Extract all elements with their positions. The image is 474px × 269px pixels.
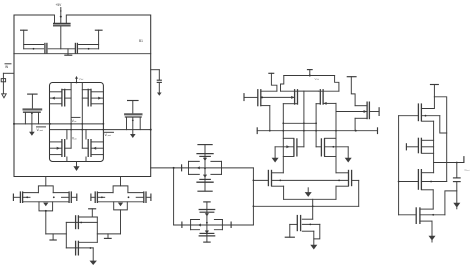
cross X1 midline xyxy=(189,167,222,169)
node dot X out tail wire xyxy=(253,205,255,207)
transistor M1 source stub xyxy=(54,15,56,23)
wire L1 drain to center xyxy=(48,48,74,50)
M5 mid lead xyxy=(302,223,320,225)
wire W1 xyxy=(283,122,316,124)
cross X1 bottom gate bar xyxy=(199,178,211,180)
stage-2 top rail right corner xyxy=(335,76,339,92)
O3 gate lead xyxy=(399,181,419,183)
ML bulk arrow head xyxy=(29,132,35,136)
svg-text:+5V: +5V xyxy=(56,3,63,7)
MB upper gate bar xyxy=(75,215,77,229)
NL inner drain stub xyxy=(66,130,68,162)
MB upper channel bar xyxy=(77,215,79,229)
M5 source vertical xyxy=(313,231,315,245)
M2R top stem xyxy=(351,77,355,106)
M3R bias arrow xyxy=(345,158,352,163)
cross X2 midline xyxy=(191,224,223,226)
cross X2 bottom stem xyxy=(206,236,208,242)
cross X2 lower arrow xyxy=(205,231,209,234)
cross X2 center vertical xyxy=(206,210,208,236)
wire bias chain right xyxy=(97,233,120,235)
stage-2 right rail xyxy=(335,103,337,172)
M3R mid lead xyxy=(325,146,349,148)
M2C gate arrow xyxy=(323,102,326,105)
node dot M3L mid xyxy=(286,145,289,148)
output drain rail xyxy=(433,121,435,173)
output cap ground arrow xyxy=(453,203,460,208)
stage-2 center vertical xyxy=(303,91,305,147)
node dot on +5V stem xyxy=(60,16,62,18)
inner gate rail left xyxy=(70,83,72,149)
cluster CR left T-bar xyxy=(90,194,92,202)
W2 right T-bar xyxy=(377,127,379,134)
transistor M2B gate bar xyxy=(294,89,296,105)
M2C bottom lead xyxy=(316,103,320,105)
input source symbol xyxy=(1,79,5,82)
cluster CR bottom stem xyxy=(120,210,122,234)
stage-2 Vdd stem xyxy=(309,70,311,76)
M2L channel bar xyxy=(260,89,262,106)
PR gate lead xyxy=(82,97,88,99)
NL drain lead xyxy=(50,141,62,143)
M2L gate bar xyxy=(257,89,259,106)
transistor ML gate stem xyxy=(31,94,33,108)
M5 gate T-ground bar xyxy=(285,236,295,238)
bias tick X2 right xyxy=(230,222,232,229)
transistor MR gate bar xyxy=(124,113,142,115)
transistor M4R channel bar xyxy=(348,170,350,186)
tail current arrow stem xyxy=(307,188,309,193)
node dot O4 mid xyxy=(432,214,434,216)
node dot W3 center xyxy=(312,205,314,207)
cluster CR left gate bar xyxy=(94,191,96,203)
transistor L1 T drop wire xyxy=(23,30,25,49)
cluster CR left mid stub xyxy=(97,196,104,198)
stage-2 center top connectors xyxy=(298,90,319,92)
cross X1 left connectors xyxy=(189,161,200,174)
M2R mid arrow xyxy=(364,110,367,113)
O4 bottom lead xyxy=(420,220,432,222)
transistor MR gate bias T-bar xyxy=(127,100,139,102)
cluster CR right gate lead xyxy=(146,196,151,198)
transistor MR source stub xyxy=(126,118,128,130)
inner PMOS PL gate bar xyxy=(64,89,66,107)
node dot feed X2 xyxy=(173,167,175,169)
M5 channel bar xyxy=(300,215,302,231)
M3L bias arrow stem xyxy=(274,147,276,158)
cluster CL bottom staple xyxy=(39,202,53,211)
wire X2 feed vertical xyxy=(173,168,175,225)
M4L source lead xyxy=(272,185,284,187)
M4L gate lead xyxy=(253,179,268,181)
inner NMOS NR channel bar xyxy=(90,139,92,157)
M2L top bias T-bar xyxy=(268,72,274,74)
node dot on L1 lower lead xyxy=(33,48,35,50)
O1 channel bar xyxy=(420,103,422,121)
cross X2 left connectors xyxy=(191,220,200,230)
transistor M1 channel bar xyxy=(53,22,71,24)
cluster CR stem from box xyxy=(120,177,122,186)
transistor M2L gate T-bar xyxy=(243,93,245,101)
inner box tail ground arrow xyxy=(73,166,79,171)
svg-text:B1: B1 xyxy=(139,39,143,43)
M5 gate vertical xyxy=(289,224,291,237)
inner NMOS NL channel bar xyxy=(61,139,63,157)
M2R top lead xyxy=(355,105,367,107)
node dot output cap xyxy=(456,162,458,164)
M3R bottom lead xyxy=(325,156,337,158)
node dots on rail y129.6 xyxy=(70,129,72,131)
right input cap bar bottom xyxy=(157,81,162,83)
M3L mid lead xyxy=(275,146,294,148)
transistor R1 channel bar xyxy=(74,43,76,54)
node dot MB upper xyxy=(80,222,82,224)
NL gate lead xyxy=(65,147,71,149)
O3 to O4 rail xyxy=(432,190,434,209)
node dot O1 mid xyxy=(425,115,427,117)
M4R gate lead xyxy=(352,179,359,181)
output cap top plate xyxy=(453,177,461,179)
cluster CR bottom staple xyxy=(114,202,128,210)
transistor ML gate bar xyxy=(23,108,43,110)
O2 bottom lead xyxy=(421,152,433,154)
inner NMOS NR gate bar xyxy=(87,139,89,157)
M5 mid wrap xyxy=(314,224,320,239)
node dot CL left xyxy=(26,196,28,198)
M2R gate T-bar xyxy=(378,107,380,116)
M3L bias arrow xyxy=(272,158,279,163)
NR bulk lead xyxy=(91,147,103,149)
transistor M1 gate bar xyxy=(53,24,71,26)
inner PMOS PR gate bar xyxy=(87,89,89,107)
NL source lead xyxy=(50,154,62,156)
M2C gate bar xyxy=(322,89,324,105)
PR inner source connector xyxy=(82,89,91,91)
transistor R1 gate bar xyxy=(76,43,78,54)
input source stem xyxy=(2,73,4,94)
cross X2 bottom channel bar xyxy=(199,235,216,237)
O4 top lead xyxy=(420,208,433,210)
output cap bottom plate xyxy=(453,181,461,183)
bias tick X1 left xyxy=(181,164,183,171)
transistor L1 gate bar xyxy=(44,43,46,54)
M4L channel bar xyxy=(271,170,273,186)
node dot stage-2 Vdd xyxy=(309,75,311,77)
bias tick X2 left xyxy=(181,222,183,229)
node dot X out gate branch xyxy=(253,180,255,182)
cross X1 top gate bar xyxy=(199,155,211,157)
M2L top bias link xyxy=(271,73,277,91)
inner gate rail right xyxy=(81,83,83,149)
cross X2 upper arrow xyxy=(205,213,209,216)
O1 gate bar xyxy=(417,103,419,121)
cross X1 right bridge xyxy=(221,161,223,174)
cluster CL left mid stub xyxy=(23,196,30,198)
transistor L1 lower lead xyxy=(24,48,44,50)
cluster CL right T-bar xyxy=(76,194,78,202)
O2 gate T-bar xyxy=(405,143,407,150)
cross X2 left arrow xyxy=(198,224,201,227)
O4 ground arrow xyxy=(429,236,436,241)
transistor L1 gate bias T-bar xyxy=(20,29,28,31)
O1 gate lead xyxy=(399,115,419,117)
wire node B rail y129.6 xyxy=(50,129,151,131)
transistor O2 gate bar xyxy=(417,138,419,154)
cap branch to O4 xyxy=(445,191,457,215)
O1 mid wrap xyxy=(440,116,447,133)
output gate feedback rail xyxy=(398,116,400,215)
NR inner drain stub xyxy=(85,130,87,162)
M2R bottom lead xyxy=(355,117,367,119)
wire X2 out right xyxy=(222,224,253,226)
transistor R1 upper lead xyxy=(79,44,99,46)
stage-1 outer box xyxy=(14,15,151,177)
node dot MB lower xyxy=(90,247,92,249)
cluster CL left T-bar xyxy=(12,194,14,202)
transistor L1 upper lead xyxy=(24,44,44,46)
bias tap T bar xyxy=(64,54,72,56)
O2 top lead xyxy=(421,139,433,141)
output supply wrap xyxy=(434,97,446,182)
cross X2 bottom T-bar xyxy=(203,241,211,243)
cluster CL stem from box xyxy=(45,177,47,186)
M2C top lead xyxy=(318,90,339,92)
cluster CL right mid stub xyxy=(62,196,70,198)
cluster CL left gate bar xyxy=(19,191,21,203)
diff pair bulk rail xyxy=(272,179,349,181)
O4 source vertical xyxy=(431,221,433,236)
PR drain lead xyxy=(91,103,103,105)
M2L top lead xyxy=(261,90,277,92)
output cap stem lower xyxy=(456,182,458,203)
cluster CL left channel bar xyxy=(22,191,24,203)
cross X1 top T-bar xyxy=(197,144,212,146)
transistor ML source stub xyxy=(24,113,26,124)
transistor MR channel bar xyxy=(125,116,142,118)
transistor M1 drain stub xyxy=(65,15,67,23)
bias T-ground bar right xyxy=(104,237,112,239)
O2 gate lead xyxy=(406,146,418,148)
inner NMOS NL gate bar xyxy=(64,139,66,157)
transistor L1 channel bar xyxy=(46,43,48,54)
wire W2 bias rail xyxy=(257,130,377,132)
transistor M3L channel bar xyxy=(293,138,295,156)
ML bulk arrow stem xyxy=(31,113,33,132)
transistor O3 gate bar xyxy=(417,169,419,190)
inner box tail stem xyxy=(76,162,78,167)
M2L mid arrow xyxy=(261,96,263,98)
wire bias chain left xyxy=(46,233,67,235)
M5 source lead xyxy=(302,230,314,232)
M3R channel bar xyxy=(324,138,326,156)
cluster CR top bridge xyxy=(113,186,128,193)
MB top bias stem xyxy=(91,209,93,217)
inner PMOS PL channel bar xyxy=(61,89,63,107)
cross X2 top gate bar xyxy=(200,211,215,213)
wire top cluster rail xyxy=(14,53,151,55)
cross X2 top channel bar xyxy=(199,209,216,211)
stage-2 Vdd T-bar xyxy=(307,69,313,71)
cross X2 right connectors xyxy=(214,220,222,230)
O1 bottom lead xyxy=(421,120,433,122)
cluster CR bottom rail xyxy=(98,201,144,203)
cross X2 left bridge xyxy=(190,220,192,230)
cross X1 top stem xyxy=(204,145,206,154)
MB upper drain lead xyxy=(78,216,97,218)
transistor R1 T drop wire xyxy=(98,30,100,49)
M5 gate bar xyxy=(296,215,298,231)
O3 channel bar xyxy=(420,169,422,190)
node dot M2L drain xyxy=(269,130,271,132)
S1 to W3 connector xyxy=(312,199,314,206)
cluster CR right gate bar xyxy=(145,191,147,203)
NL bulk lead xyxy=(50,147,62,149)
MB ground arrow xyxy=(90,261,97,265)
M2B drain rail xyxy=(282,104,284,173)
node dots on bulk rail xyxy=(279,180,281,182)
O2 channel bar xyxy=(420,138,422,154)
O4 mid lead xyxy=(420,214,445,216)
cross X1 left bridge xyxy=(188,161,190,174)
bias tap T stub xyxy=(67,49,69,55)
M3R bias arrow stem xyxy=(347,147,349,158)
M2R mid lead xyxy=(336,111,367,113)
input ground arrow xyxy=(2,94,7,98)
node dots on M2C drain vertical xyxy=(315,122,317,124)
node dot O3 gate xyxy=(398,181,400,183)
M3L bottom lead xyxy=(283,156,294,158)
NR gate lead xyxy=(82,147,88,149)
node dot M5 mid xyxy=(309,224,311,226)
node dot on R1 lower lead xyxy=(88,48,90,50)
cross X1 bottom stem xyxy=(204,182,206,191)
M4R source lead xyxy=(336,185,349,187)
O2 mid lead xyxy=(421,146,433,148)
M2L drain lead xyxy=(261,105,270,107)
cluster CL bottom rail xyxy=(23,201,69,203)
right input stem xyxy=(158,70,160,93)
cluster CL bottom stem xyxy=(45,211,47,234)
PL bulk arrow head xyxy=(51,97,54,100)
MB lower drain lead xyxy=(78,241,97,243)
wire W3 tail rail xyxy=(253,205,358,207)
right input ground arrow xyxy=(157,93,162,96)
M5 drain lead xyxy=(302,218,312,220)
cluster CL top bridge xyxy=(38,186,53,193)
wire node A rail y124 xyxy=(14,123,103,125)
node dots on W2 xyxy=(335,130,337,132)
M2L drain vertical xyxy=(269,106,271,131)
M2B bottom lead xyxy=(283,103,297,105)
node dot CR left xyxy=(101,196,103,198)
cross X1 left arrow xyxy=(197,166,200,169)
M5 gate lead xyxy=(290,223,298,225)
cluster CL right gate bar xyxy=(70,191,72,203)
stage-2 top rail left corner xyxy=(281,76,284,92)
O1 mid lead xyxy=(421,115,439,117)
transistor MR drain stub xyxy=(139,118,141,130)
node dot inner Vdd xyxy=(76,82,78,84)
cluster CR right mid stub xyxy=(136,196,144,198)
PR bulk arrow head xyxy=(98,97,101,100)
MB left gate rail xyxy=(65,222,67,248)
PL inner source connector xyxy=(62,89,71,91)
node dot M3R mid xyxy=(332,146,334,148)
M2R channel bar xyxy=(366,102,368,120)
M3R gate lead xyxy=(316,146,321,148)
PL drain lead xyxy=(50,103,62,105)
O4 channel bar xyxy=(419,207,421,224)
O3 mid lead xyxy=(421,181,446,183)
M3L gate bar xyxy=(296,138,298,156)
transistor ML drain stub xyxy=(38,113,40,124)
transistor R1 lower lead xyxy=(79,48,99,50)
cross X1 bottom channel bar xyxy=(196,181,213,183)
node dots on center vertical xyxy=(303,122,305,124)
MB lower gate bar xyxy=(75,241,77,256)
cluster CR left channel bar xyxy=(96,191,98,203)
cluster CL right channel bar xyxy=(68,191,70,203)
transistor M4L gate bar xyxy=(267,170,269,186)
transistor MR gate stem xyxy=(132,101,134,114)
M4R gate vertical xyxy=(358,180,360,206)
O4 gate bar xyxy=(415,207,417,224)
M5 ground arrow xyxy=(310,245,317,250)
M4R top lead xyxy=(336,172,349,174)
wire X2 feed horizontal xyxy=(174,224,191,226)
M2R gate bar xyxy=(368,102,370,120)
cross X1 bottom T-bar xyxy=(197,190,212,192)
node dot ML center xyxy=(31,113,33,115)
bias T-ground stub right xyxy=(107,234,109,238)
inner PMOS PR channel bar xyxy=(90,89,92,107)
MB top bias T-bar xyxy=(88,208,96,210)
output supply T-bar xyxy=(430,84,439,86)
PR source lead xyxy=(91,91,103,93)
node dot CL bottom xyxy=(45,210,47,212)
transistor R1 gate bias T-bar xyxy=(95,29,103,31)
MR bulk arrow head xyxy=(130,134,136,138)
cluster CR left gate lead xyxy=(91,196,95,198)
cluster CL center down arrow xyxy=(43,203,48,207)
output supply stem xyxy=(433,85,435,97)
cross X2 bottom gate bar xyxy=(200,232,215,234)
node dot O3 mid xyxy=(430,181,432,183)
cluster CL top rail xyxy=(23,192,69,194)
output wire xyxy=(434,162,464,164)
transistor M5 drain vertical xyxy=(312,206,314,219)
transistor ML gate bias T-bar xyxy=(27,93,37,95)
tail current arrow xyxy=(305,192,312,197)
node dots on M2B drain rail xyxy=(282,122,284,124)
wire S1 sources xyxy=(284,198,336,200)
cross X1 upper arrow xyxy=(203,158,207,161)
M2C gate lead xyxy=(323,102,336,104)
transistor M3R gate bar xyxy=(320,138,322,156)
NR source lead xyxy=(91,154,103,156)
MB right rail xyxy=(96,217,98,242)
node dot X1 center xyxy=(204,168,206,170)
PL source lead xyxy=(50,91,62,93)
node dot CL right xyxy=(53,196,55,198)
cross X1 right connectors xyxy=(211,161,222,174)
cluster CR right channel bar xyxy=(143,191,145,203)
transistor M2C channel bar xyxy=(319,89,321,105)
cross X1 center vertical xyxy=(204,154,206,183)
input wire to box xyxy=(3,72,14,74)
stage-2 top rail xyxy=(284,75,335,77)
node dots on rail y124 xyxy=(13,123,15,125)
